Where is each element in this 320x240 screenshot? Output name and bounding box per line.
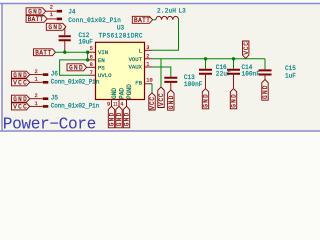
svg-text:GND: GND — [203, 94, 210, 108]
pin GND (9) bottom — [111, 100, 113, 107]
wire EN to UVLO loop — [60, 60, 88, 75]
wire J6 pin2 — [30, 74, 43, 76]
global label BATT (J4 pin 1) — [26, 15, 47, 23]
svg-text:GND: GND — [168, 95, 175, 109]
global label BATT (VIN row) — [34, 49, 56, 57]
svg-text:100nF: 100nF — [242, 71, 261, 78]
pin VIN (5) — [88, 51, 96, 53]
pin L (3) — [145, 49, 153, 51]
svg-text:PAD: PAD — [119, 88, 126, 99]
global label BATT (inductor input) — [132, 16, 152, 24]
global label GND (J6 pin 2) — [12, 71, 30, 79]
pad J6 pin2 — [43, 73, 49, 76]
svg-text:GND: GND — [111, 88, 118, 99]
wire FB to VCC — [151, 84, 153, 93]
svg-text:J6: J6 — [51, 71, 59, 78]
wire J4 pin2 — [46, 10, 56, 12]
svg-text:Conn_01x02_Pin: Conn_01x02_Pin — [68, 17, 121, 24]
junction C14 — [232, 57, 235, 60]
svg-text:VCC: VCC — [149, 97, 156, 110]
svg-text:7: 7 — [90, 70, 93, 76]
svg-text:UVLO: UVLO — [98, 72, 112, 79]
svg-text:GND: GND — [69, 65, 83, 72]
global label GND (under C16) vertical — [202, 89, 209, 109]
svg-text:J5: J5 — [51, 95, 59, 102]
pin UVLO (7) — [88, 74, 96, 76]
pad J5 pin1 — [43, 105, 49, 108]
global label GND (above C12) — [46, 23, 66, 31]
junction C12/BATT — [63, 51, 66, 54]
pin VOUT (2) — [145, 58, 153, 60]
svg-text:1: 1 — [50, 12, 53, 18]
sheet frame left line — [1, 4, 3, 132]
svg-text:VOUT: VOUT — [129, 56, 143, 63]
pad J6 pin1 — [43, 81, 49, 84]
capacitor C13 bottom stem — [170, 83, 172, 90]
pin PAD (11) bottom — [118, 100, 120, 107]
svg-text:L: L — [139, 47, 142, 54]
capacitor C15 plates — [259, 70, 272, 74]
wire BATT to VIN — [56, 51, 89, 53]
svg-text:GND: GND — [28, 8, 42, 15]
svg-text:8: 8 — [90, 62, 93, 68]
global label GND (PS pin) — [67, 64, 87, 72]
svg-text:10: 10 — [146, 77, 152, 83]
svg-text:10uF: 10uF — [79, 38, 94, 45]
capacitor C16 plates — [199, 70, 212, 74]
wire L3 to pin L — [152, 20, 179, 51]
wire VIN to EN — [87, 52, 89, 60]
global label GND (under pin 4) vertical — [123, 106, 130, 128]
svg-text:1: 1 — [146, 62, 149, 68]
inductor L3 — [156, 16, 179, 20]
svg-text:5: 5 — [90, 46, 93, 52]
wire VAUX to C13 — [152, 67, 171, 77]
svg-text:L3: L3 — [179, 7, 187, 14]
svg-text:GND: GND — [262, 85, 269, 99]
svg-text:VAUX: VAUX — [129, 63, 143, 70]
pin PGND (4) bottom — [126, 100, 128, 107]
svg-text:6: 6 — [90, 55, 93, 61]
svg-text:2.2uH: 2.2uH — [157, 7, 176, 14]
global label GND (under C13) vertical — [168, 90, 175, 110]
svg-text:9: 9 — [107, 101, 110, 107]
svg-text:U3: U3 — [117, 25, 125, 32]
wire VOUT to GND label (vertical at 161) — [160, 59, 162, 87]
svg-text:C15: C15 — [285, 65, 296, 72]
svg-text:FB: FB — [135, 80, 142, 87]
svg-text:PS: PS — [98, 64, 105, 71]
sheet frame bottom line — [0, 130, 320, 132]
capacitor C15 top stem — [264, 59, 266, 70]
wire J5 pin1 — [30, 105, 43, 107]
capacitor C16 bottom stem — [205, 75, 207, 88]
svg-text:BATT: BATT — [35, 50, 51, 57]
global label GND (under pin 9) vertical — [108, 106, 115, 128]
svg-text:BATT: BATT — [134, 17, 150, 24]
pin VAUX (1) — [145, 66, 153, 68]
svg-text:GND: GND — [48, 24, 62, 31]
svg-text:GND: GND — [109, 112, 116, 126]
capacitor C16 top stem — [205, 59, 207, 69]
wire J6 pin1 — [30, 81, 43, 83]
svg-text:C13: C13 — [184, 74, 195, 81]
svg-text:3: 3 — [146, 45, 149, 51]
capacitor C13 plates — [164, 78, 177, 82]
capacitor C14 top stem — [233, 59, 235, 69]
svg-text:2: 2 — [35, 69, 38, 75]
global label VCC (VOUT rail to VCC, vertical) — [158, 87, 165, 108]
svg-text:GND: GND — [124, 112, 131, 126]
svg-text:4: 4 — [120, 101, 123, 107]
svg-text:VCC: VCC — [243, 42, 250, 55]
global label VCC (J6 pin 1) — [12, 79, 30, 87]
global label VCC (J5 pin 1) — [12, 103, 30, 111]
pin EN (6) — [88, 59, 96, 61]
svg-text:EN: EN — [98, 57, 105, 64]
capacitor C12 plates — [59, 36, 71, 40]
wire VOUT rail — [152, 58, 265, 60]
svg-text:PGND: PGND — [126, 84, 133, 99]
svg-text:GND: GND — [231, 94, 238, 108]
wire GND label to C12 — [64, 28, 66, 36]
op-amp U3 body TPS61201DRC — [96, 42, 145, 99]
global label GND (J5 pin 2) — [12, 95, 30, 103]
svg-text:VIN: VIN — [98, 49, 108, 56]
global label VCC (FB pull, pointing up) — [149, 93, 156, 110]
svg-text:VCC: VCC — [13, 104, 27, 111]
global label GND (under C14) vertical — [230, 89, 237, 109]
svg-text:VCC: VCC — [13, 80, 27, 87]
svg-text:Conn_01x02_Pin: Conn_01x02_Pin — [51, 103, 100, 110]
wire J5 pin2 — [30, 98, 43, 100]
svg-text:2: 2 — [50, 5, 53, 11]
svg-text:100nF: 100nF — [184, 81, 203, 88]
svg-text:GND: GND — [116, 112, 123, 126]
wire J4 pin1 — [47, 18, 56, 20]
global label GND (under C15) vertical — [262, 80, 269, 101]
svg-text:11: 11 — [113, 101, 117, 107]
capacitor C14 bottom stem — [233, 75, 235, 88]
pad J5 pin2 — [43, 97, 49, 100]
pad J4 pin1 — [57, 18, 63, 21]
global label VCC (on VOUT rail, pointing down) — [243, 41, 250, 58]
svg-text:VCC: VCC — [158, 93, 165, 106]
svg-text:GND: GND — [13, 96, 27, 103]
wire BATT to L3 — [153, 19, 156, 21]
junction VIN/EN branch — [86, 51, 89, 54]
svg-text:TPS61201DRC: TPS61201DRC — [99, 33, 143, 40]
pin PS wire — [87, 66, 96, 68]
svg-text:1: 1 — [35, 101, 38, 107]
svg-text:Power−Core: Power−Core — [3, 115, 97, 133]
svg-text:J4: J4 — [68, 9, 76, 16]
svg-text:2: 2 — [35, 93, 38, 99]
junction EN — [86, 58, 89, 61]
capacitor C14 plates — [227, 70, 240, 74]
svg-text:1: 1 — [35, 77, 38, 83]
capacitor C12 bottom stem — [64, 41, 66, 52]
pin FB (10) — [145, 83, 153, 85]
svg-text:BATT: BATT — [28, 16, 44, 23]
global label GND (J4 pin 2) — [26, 8, 46, 16]
global label GND (under pin 11) vertical — [116, 106, 123, 128]
svg-text:Conn_01x02_Pin: Conn_01x02_Pin — [51, 78, 100, 85]
svg-text:1uF: 1uF — [285, 73, 296, 80]
sheet frame top line — [0, 3, 320, 5]
svg-text:2: 2 — [146, 53, 149, 59]
junction C16 — [204, 57, 207, 60]
svg-text:GND: GND — [13, 72, 27, 79]
pad J4 pin2 — [57, 10, 63, 13]
capacitor C15 bottom stem — [264, 76, 266, 80]
